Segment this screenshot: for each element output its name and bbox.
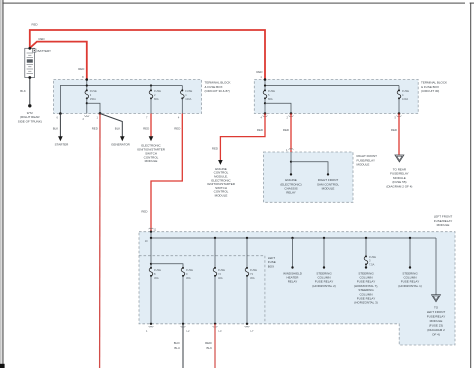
svg-text:RED: RED — [212, 147, 218, 151]
battery — [25, 48, 51, 77]
svg-text:SIDE OF TRUNK): SIDE OF TRUNK) — [18, 119, 42, 123]
svg-text:80A: 80A — [154, 97, 159, 101]
svg-text:BLK: BLK — [207, 346, 213, 350]
svg-text:MODULE: MODULE — [357, 163, 370, 167]
svg-text:FUSE: FUSE — [250, 268, 257, 272]
svg-text:RELAY: RELAY — [288, 280, 298, 284]
right front fuse/relay module box — [263, 152, 377, 202]
svg-text:30A: 30A — [154, 276, 159, 280]
fuse 8 30A — [146, 238, 183, 333]
svg-text:30A: 30A — [186, 276, 191, 280]
svg-text:RED: RED — [283, 128, 289, 132]
svg-text:(DIAGRAM 2 OF 4): (DIAGRAM 2 OF 4) — [386, 185, 412, 189]
node battery positive — [28, 47, 31, 50]
box1 internal bus — [60, 75, 182, 114]
fuse 73 30A — [245, 238, 257, 333]
svg-text:BLU: BLU — [174, 346, 180, 350]
wire box2 pin2 to right front fuse/relay module (RED) — [283, 112, 293, 152]
svg-text:40A: 40A — [218, 276, 223, 280]
svg-text:RED: RED — [92, 127, 98, 131]
svg-text:(HORIZONTAL 1): (HORIZONTAL 1) — [398, 284, 422, 288]
wire box2 pin5 to rear fuse/relay module (RED) — [391, 112, 400, 155]
wire fuse 9 out (BLK/BLU) — [174, 324, 183, 368]
wire pin4 box1 to left front fuse/relay module (RED) — [141, 114, 182, 232]
svg-text:FUSE: FUSE — [218, 268, 225, 272]
svg-text:TO: TO — [434, 306, 439, 310]
svg-text:FUSE: FUSE — [185, 89, 192, 93]
fuse 4 100A — [397, 86, 409, 114]
pin numbers box2 bottom — [261, 115, 402, 119]
wire pin1 long red to bottom — [92, 114, 100, 368]
svg-text:BLK: BLK — [20, 89, 26, 93]
big box bus — [150, 232, 436, 240]
svg-text:MODULE: MODULE — [430, 319, 443, 323]
svg-text:RED: RED — [257, 128, 263, 132]
fuse 1 100A — [181, 86, 193, 114]
wire to starter (BLK) — [53, 112, 69, 146]
relay drop: steering column fuse relay (horizontal 2) — [312, 238, 336, 288]
wire to electronic ignition/starter switch control module (RED) — [137, 114, 166, 164]
wire battery to fuse box 2 (red, top) — [30, 22, 265, 79]
svg-text:(HORIZONTAL 2): (HORIZONTAL 2) — [312, 284, 336, 288]
svg-text:RELAY: RELAY — [286, 191, 296, 195]
svg-text:30A: 30A — [250, 276, 255, 280]
svg-text:FUSE: FUSE — [369, 255, 376, 259]
wire battery ground (BLK) — [20, 78, 30, 105]
svg-text:BOX: BOX — [268, 264, 274, 268]
svg-text:FUSE: FUSE — [90, 89, 97, 93]
svg-text:BLK: BLK — [115, 127, 121, 131]
svg-text:RED: RED — [32, 22, 38, 26]
svg-text:(CIRCUIT 30): (CIRCUIT 30) — [421, 89, 439, 93]
svg-text:150A: 150A — [90, 97, 96, 101]
wire to left front fuse/relay module (off-page) — [427, 238, 446, 337]
svg-text:FUSE: FUSE — [268, 89, 275, 93]
svg-text:FUSE: FUSE — [154, 268, 161, 272]
svg-text:BLK: BLK — [53, 127, 59, 131]
right front module internal wiring — [290, 152, 328, 174]
svg-text:100A: 100A — [402, 97, 408, 101]
relay drop: windshield heater relay — [283, 238, 303, 284]
svg-text:RED/: RED/ — [205, 341, 212, 345]
node pin1 junction — [99, 112, 102, 115]
svg-text:FUSE: FUSE — [186, 268, 193, 272]
svg-text:BLK/: BLK/ — [174, 341, 180, 345]
svg-text:MODULE: MODULE — [145, 159, 158, 163]
pin numbers box1 bottom — [57, 115, 180, 121]
svg-text:BATTERY: BATTERY — [38, 49, 52, 53]
svg-text:80A: 80A — [268, 97, 273, 101]
svg-text:OF 4): OF 4) — [432, 333, 440, 337]
terminal block & fuse box 1 (circuit 30 & 87) — [54, 80, 231, 114]
svg-text:RED: RED — [78, 67, 84, 71]
svg-text:STARTER: STARTER — [55, 142, 70, 146]
svg-text:(DIAGRAM 2: (DIAGRAM 2 — [427, 328, 445, 332]
wire battery to fuse box 1 (red) — [30, 37, 87, 80]
off-page connector to rear fuse/relay module — [386, 155, 412, 189]
svg-text:LEFT FRONT: LEFT FRONT — [427, 310, 446, 314]
svg-text:RED: RED — [391, 128, 397, 132]
svg-text:(HORIZONTAL 3): (HORIZONTAL 3) — [354, 301, 378, 305]
relay node: right front SAM control module — [317, 173, 339, 190]
svg-text:RED: RED — [141, 210, 147, 214]
fuse 5 80A — [263, 89, 291, 114]
svg-text:RED: RED — [256, 70, 262, 74]
svg-text:FUSE: FUSE — [154, 89, 161, 93]
svg-text:MODULE: MODULE — [437, 223, 450, 227]
box2 internal bus — [260, 75, 399, 90]
svg-text:FUSE: FUSE — [402, 89, 409, 93]
relay node: engine (electronic) chassis relay — [280, 173, 301, 195]
svg-text:(FUSE 23): (FUSE 23) — [429, 324, 443, 328]
big box entry node — [145, 227, 157, 242]
relay drop: steering column fuse relay (horizontal 1) — [398, 238, 422, 288]
wire to generator (BLK) — [100, 114, 131, 147]
fuse 3 7,5A drop with steering column relays — [354, 238, 379, 305]
svg-text:FUSE/RELAY: FUSE/RELAY — [427, 315, 445, 319]
fuse 72 40A — [213, 238, 225, 333]
wire fuse 72 out (RED/BLK) — [205, 324, 215, 368]
svg-text:7,5A: 7,5A — [369, 263, 375, 267]
fuse 2 80A — [149, 86, 161, 114]
svg-text:MODULE: MODULE — [322, 187, 335, 191]
left front fuse/relay module box — [139, 215, 455, 345]
svg-text:(CIRCUIT 30 & 87): (CIRCUIT 30 & 87) — [205, 89, 230, 93]
svg-text:RED: RED — [174, 127, 180, 131]
svg-text:MODULE: MODULE — [215, 194, 228, 198]
fuse 9 30A — [181, 267, 193, 333]
left fuse box inner partition — [139, 256, 276, 324]
svg-text:100A: 100A — [185, 97, 191, 101]
node battery negative — [28, 76, 31, 79]
svg-text:RED: RED — [39, 37, 45, 41]
wire box2 pin4 to engine control module (RED) — [207, 112, 266, 197]
ground node 9/T2 right rear side of trunk — [18, 104, 42, 123]
svg-text:GENERATOR: GENERATOR — [111, 142, 131, 146]
fuse 3 150A — [85, 89, 100, 114]
svg-text:RED: RED — [143, 127, 149, 131]
terminal block & fuse box 2 (circuit 30) — [254, 80, 447, 114]
